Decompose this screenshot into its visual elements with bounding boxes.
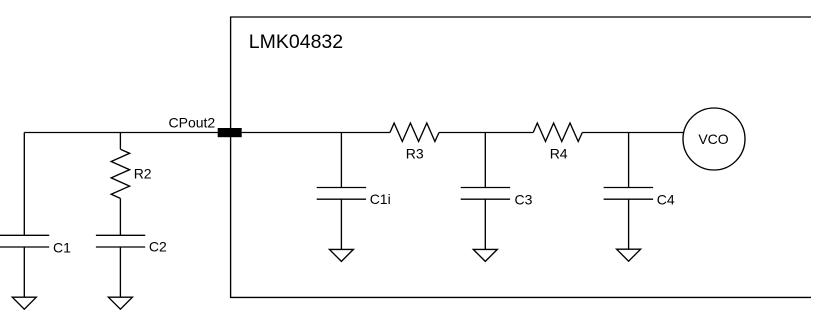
svg-text:C1: C1 (53, 240, 71, 256)
wire: R2 bottom lead to C2 top plate (119, 198, 121, 235)
wire: C3 branch, tee down to C3 top plate (484, 133, 486, 188)
wire: C1i tee to R3 left lead (341, 132, 390, 134)
wire: C1 bottom plate to ground (23, 247, 25, 297)
svg-text:R2: R2 (134, 165, 152, 181)
svg-text:LMK04832: LMK04832 (249, 31, 343, 53)
capacitor C2 bottom plate (96, 246, 145, 248)
resistor R2 (vertical zigzag) (111, 149, 129, 198)
wire: C1i bottom plate to ground (340, 199, 342, 249)
wire: C3 bottom plate to ground (484, 199, 486, 249)
svg-text:VCO: VCO (698, 131, 728, 147)
ground symbol under C4 (617, 249, 641, 261)
capacitor C1i top plate (317, 187, 366, 189)
wire: C4 branch, tee down to C4 top plate (628, 133, 630, 188)
resistor R3 (horizontal zigzag) (390, 123, 439, 142)
capacitor C2 top plate (96, 234, 145, 236)
ground symbol under C2 (108, 297, 132, 309)
ground symbol under C1 (12, 297, 36, 309)
svg-text:C2: C2 (149, 239, 167, 255)
IC boundary box U1 LMK04832 (231, 17, 811, 297)
svg-text:R3: R3 (406, 145, 424, 161)
capacitor C4 top plate (604, 187, 654, 189)
wire: C1i branch, tee down to C1i top plate (340, 133, 342, 188)
wire: C4 bottom plate to ground (628, 199, 630, 249)
wire: net CPout2, segment from R2 tee to CPout2 pin (120, 132, 218, 134)
wire: R4 right lead to C4 tee (582, 132, 628, 134)
capacitor C3 bottom plate (461, 198, 510, 200)
svg-text:R4: R4 (550, 145, 568, 161)
svg-text:C1i: C1i (370, 191, 391, 207)
wire: net inside box, CPout2 pin to C1i tee (242, 132, 342, 134)
wire: C3 tee to R4 left lead (485, 132, 533, 134)
pin CPout2 (filled pin block on box edge) (218, 128, 242, 137)
VCO circle (683, 108, 745, 170)
svg-text:C3: C3 (515, 192, 533, 208)
wire: R2 top lead from tee junction (119, 133, 121, 150)
wire: C1 branch, corner down to C1 top plate (23, 133, 25, 236)
capacitor C3 top plate (461, 187, 510, 189)
wire: C2 bottom plate to ground (119, 247, 121, 297)
capacitor C4 bottom plate (604, 198, 654, 200)
ground symbol under C3 (473, 249, 497, 261)
svg-text:CPout2: CPout2 (169, 114, 216, 130)
capacitor C1 top plate (0, 234, 49, 236)
ground symbol under C1i (329, 249, 353, 261)
capacitor C1i bottom plate (317, 198, 366, 200)
wire: net CPout2, left segment from C1 corner to R2 tee (24, 132, 120, 134)
resistor R4 (horizontal zigzag) (533, 123, 582, 142)
wire: C4 tee to VCO input (629, 132, 684, 134)
capacitor C1 bottom plate (0, 246, 49, 248)
svg-text:C4: C4 (657, 192, 675, 208)
wire: R3 right lead to C3 tee (439, 132, 485, 134)
